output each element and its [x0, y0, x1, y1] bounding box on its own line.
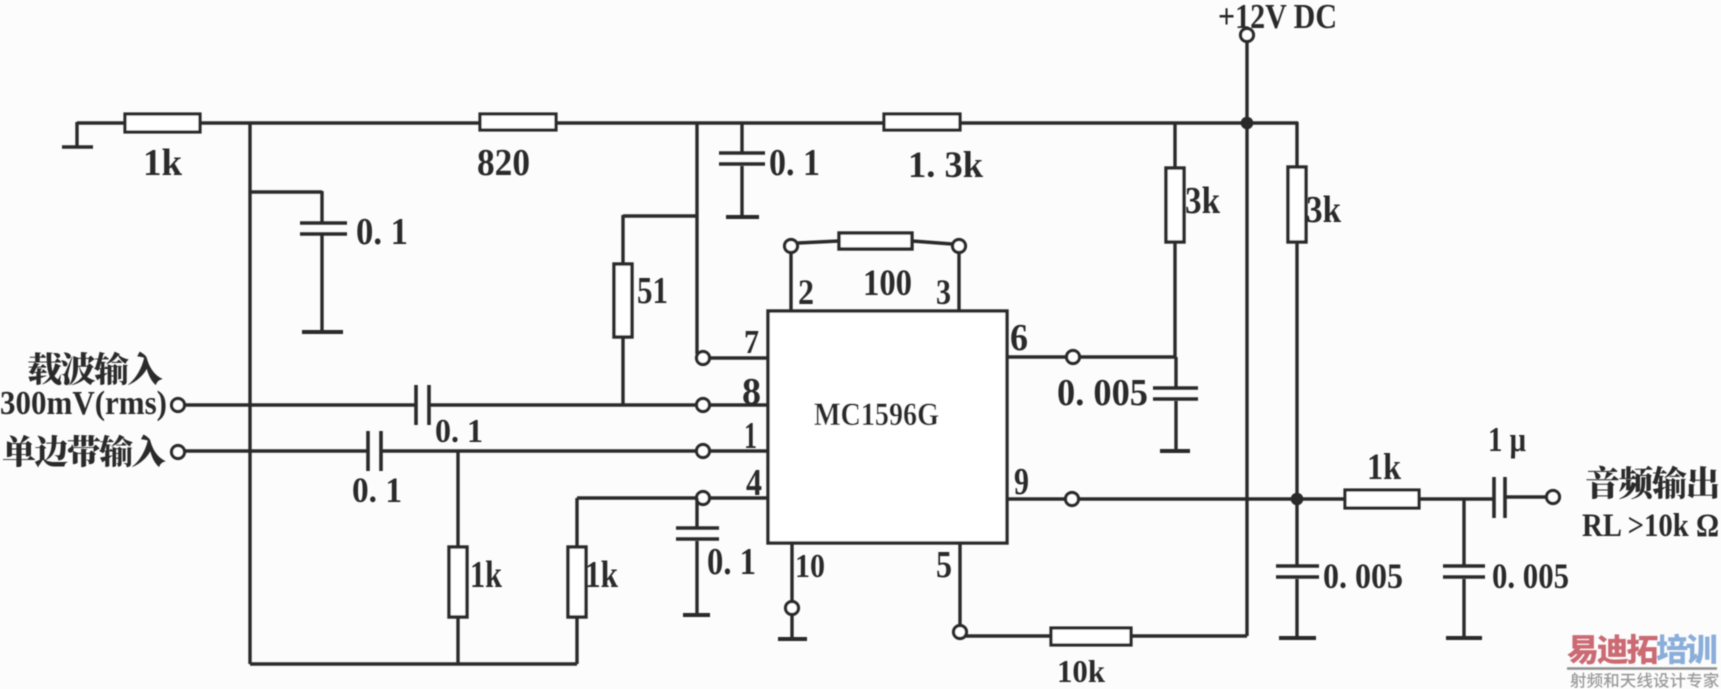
svg-text:0. 1: 0. 1 [352, 470, 402, 510]
wire (bottom rail) [250, 662, 577, 665]
watermark separator line [1567, 667, 1717, 670]
svg-text:5: 5 [936, 544, 952, 586]
capacitor C5 0.1 (pin 4 bypass) [676, 498, 756, 613]
wire (SSB input line to pin 1) [185, 449, 768, 452]
svg-text:0. 1: 0. 1 [769, 142, 820, 184]
svg-text:100: 100 [863, 263, 912, 304]
svg-text:6: 6 [1010, 317, 1028, 359]
node label: carrier input (Chinese) [28, 352, 162, 386]
pin 5 [936, 543, 967, 639]
svg-text:820: 820 [477, 142, 530, 184]
svg-text:1k: 1k [1367, 447, 1401, 488]
svg-text:0. 005: 0. 005 [1057, 372, 1148, 414]
pin 8 [697, 371, 762, 413]
watermark tagline (gray) [1570, 672, 1718, 688]
wire (R9 to output coupling cap) [1419, 497, 1494, 500]
svg-text:0. 005: 0. 005 [1492, 556, 1569, 596]
wire (C9 to output terminal) [1506, 495, 1546, 498]
resistor R11 10k [1051, 628, 1131, 689]
resistor R1 1k [125, 114, 200, 184]
node label: audio output (Chinese) [1586, 466, 1718, 500]
capacitor C8 0.005 (filter to ground) [1443, 499, 1569, 636]
svg-text:51: 51 [637, 270, 668, 312]
svg-text:3k: 3k [1185, 180, 1221, 222]
IC U1 MC1596G [768, 311, 1007, 543]
ground (under C6) [1160, 449, 1190, 453]
pin 9 [1007, 461, 1079, 506]
ground (under C1) [302, 330, 343, 334]
svg-text:7: 7 [744, 324, 759, 361]
svg-text:4: 4 [746, 462, 762, 504]
capacitor C4 0.1 (SSB coupling) [352, 431, 402, 510]
svg-text:1. 3k: 1. 3k [908, 145, 983, 186]
resistor R2 820 [477, 114, 556, 184]
ground (input, top-left) [62, 122, 93, 147]
svg-text:10k: 10k [1057, 653, 1105, 689]
resistor R5 3k (pin 6 load) [1166, 122, 1221, 357]
ground (under C7) [1279, 636, 1316, 640]
resistor R10 100 (between pins 2 and 3) [798, 233, 952, 304]
ground (under C2) [726, 215, 759, 219]
node carrier input terminal [172, 399, 185, 412]
resistor R9 1k (output filter) [1345, 447, 1419, 508]
svg-text:RL >10k Ω: RL >10k Ω [1582, 508, 1719, 544]
ground (under pin 10) [778, 637, 807, 641]
svg-text:0. 1: 0. 1 [356, 211, 408, 253]
pin 1 [697, 415, 758, 458]
resistor R8 1k (pin 4 to bottom rail) [568, 498, 619, 664]
capacitor C2 0.1 (bypass to ground) [719, 122, 820, 215]
svg-text:2: 2 [798, 272, 814, 312]
node SSB input terminal [172, 446, 185, 459]
capacitor C1 0.1 (decoupling top-left) [250, 191, 408, 331]
node +12V DC supply terminal [1218, 0, 1337, 122]
resistor R7 1k (SSB line to bottom rail) [449, 451, 503, 664]
pin 4 [697, 462, 763, 505]
pin 2 [785, 240, 815, 313]
pin 7 [697, 324, 769, 365]
wire (vertical bus from top rail to bottom rail) [248, 122, 251, 664]
capacitor C6 0.005 (pin 6 to ground) [1057, 357, 1198, 449]
svg-text:0. 005: 0. 005 [1323, 556, 1403, 596]
svg-text:300mV(rms): 300mV(rms) [0, 385, 167, 422]
node audio output terminal [1547, 491, 1560, 504]
ground (under C8) [1446, 636, 1482, 640]
junction (pin 9 line / R6 / C7) [1291, 493, 1304, 506]
svg-text:1: 1 [744, 415, 757, 457]
svg-text:1k: 1k [585, 554, 619, 596]
svg-text:1k: 1k [470, 554, 503, 596]
svg-text:1 μ: 1 μ [1488, 420, 1526, 459]
wire (carrier input line to pin 8) [185, 403, 768, 406]
svg-text:10: 10 [795, 548, 825, 585]
junction (top rail / +12V) [1241, 117, 1254, 130]
wire (vertical from top rail to pin 7) [695, 122, 698, 354]
capacitor C3 0.1 (carrier coupling) [416, 385, 483, 450]
resistor R6 3k (pin 9 load) [1288, 122, 1342, 499]
wire (top rail) [77, 121, 1298, 124]
svg-text:3: 3 [936, 272, 951, 312]
ground (under C5) [683, 613, 710, 617]
resistor R4 1.3k [884, 114, 983, 186]
wire (pin 4 line) [577, 496, 768, 499]
resistor R3 51 [614, 215, 697, 405]
capacitor C9 1u (output coupling) [1488, 420, 1526, 518]
svg-text:8: 8 [742, 371, 761, 413]
pin 6 [1007, 317, 1176, 364]
svg-text:+12V DC: +12V DC [1218, 0, 1337, 36]
svg-text:0. 1: 0. 1 [707, 541, 756, 583]
pin 3 [936, 240, 966, 313]
capacitor C7 0.005 (output node to ground) [1276, 505, 1403, 636]
watermark logo: yiditop training (red+blue) [1567, 634, 1657, 665]
svg-text:1k: 1k [143, 142, 183, 184]
svg-text:0. 1: 0. 1 [435, 413, 483, 450]
pin 10 [786, 543, 826, 637]
wire (pin 9 output line) [1079, 497, 1345, 500]
node label: SSB input (Chinese) [3, 435, 166, 468]
wire (+12V feed down to 10k) [1245, 123, 1248, 636]
svg-text:3k: 3k [1306, 189, 1342, 231]
svg-text:9: 9 [1014, 461, 1029, 503]
wire (pin 5 to +12V feed) [964, 634, 1247, 637]
svg-text:MC1596G: MC1596G [814, 397, 939, 433]
